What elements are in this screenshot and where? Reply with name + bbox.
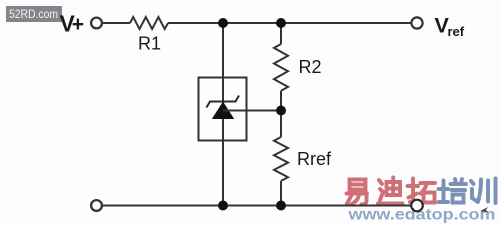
node bottom-A junction dot: [218, 201, 228, 211]
svg-text:ref: ref: [448, 24, 465, 39]
zener diode D1 anode triangle: [212, 102, 234, 120]
svg-text:52RD.com: 52RD.com: [9, 9, 58, 21]
wire top (V+ to Vref): [103, 22, 411, 24]
resistor Rref: [274, 137, 288, 181]
svg-text:Rref: Rref: [297, 149, 332, 169]
svg-text:R2: R2: [299, 57, 322, 77]
mouse cursor: [481, 207, 489, 212]
易: [347, 180, 368, 205]
node bottom-B junction dot: [276, 201, 286, 211]
resistor R1: [130, 17, 168, 29]
zener box U1: [199, 78, 247, 141]
node ref junction dot: [276, 106, 286, 116]
svg-text:+: +: [72, 13, 84, 36]
resistor R2: [274, 44, 288, 91]
terminal bottom-left: [91, 200, 102, 211]
node A junction dot: [218, 18, 228, 28]
wire vertical from node A through zener to bottom: [222, 23, 224, 206]
wire R2 branch top lead: [280, 23, 282, 44]
wire Rref top lead: [280, 111, 282, 138]
培: [439, 179, 467, 203]
训: [471, 179, 496, 204]
node B junction dot: [276, 18, 286, 28]
label Vref: [435, 14, 465, 39]
迪: [378, 178, 403, 204]
wire Rref bottom lead: [280, 181, 282, 206]
wire reference (zener to R2/Rref node): [223, 110, 281, 112]
拓: [408, 179, 436, 203]
wire R2 bottom lead: [280, 91, 282, 111]
watermark 易迪拓培训 (red part): [347, 178, 436, 205]
wire bottom: [103, 205, 411, 207]
watermark 52RD.com box: [6, 6, 62, 22]
terminal V+: [91, 18, 102, 29]
svg-text:R1: R1: [138, 34, 161, 54]
watermark 培训 (blue part): [439, 179, 496, 204]
terminal bottom-right: [411, 200, 423, 212]
terminal Vref: [411, 17, 422, 28]
label V+: [60, 10, 85, 36]
zener diode D1 cathode bar: [207, 96, 240, 108]
